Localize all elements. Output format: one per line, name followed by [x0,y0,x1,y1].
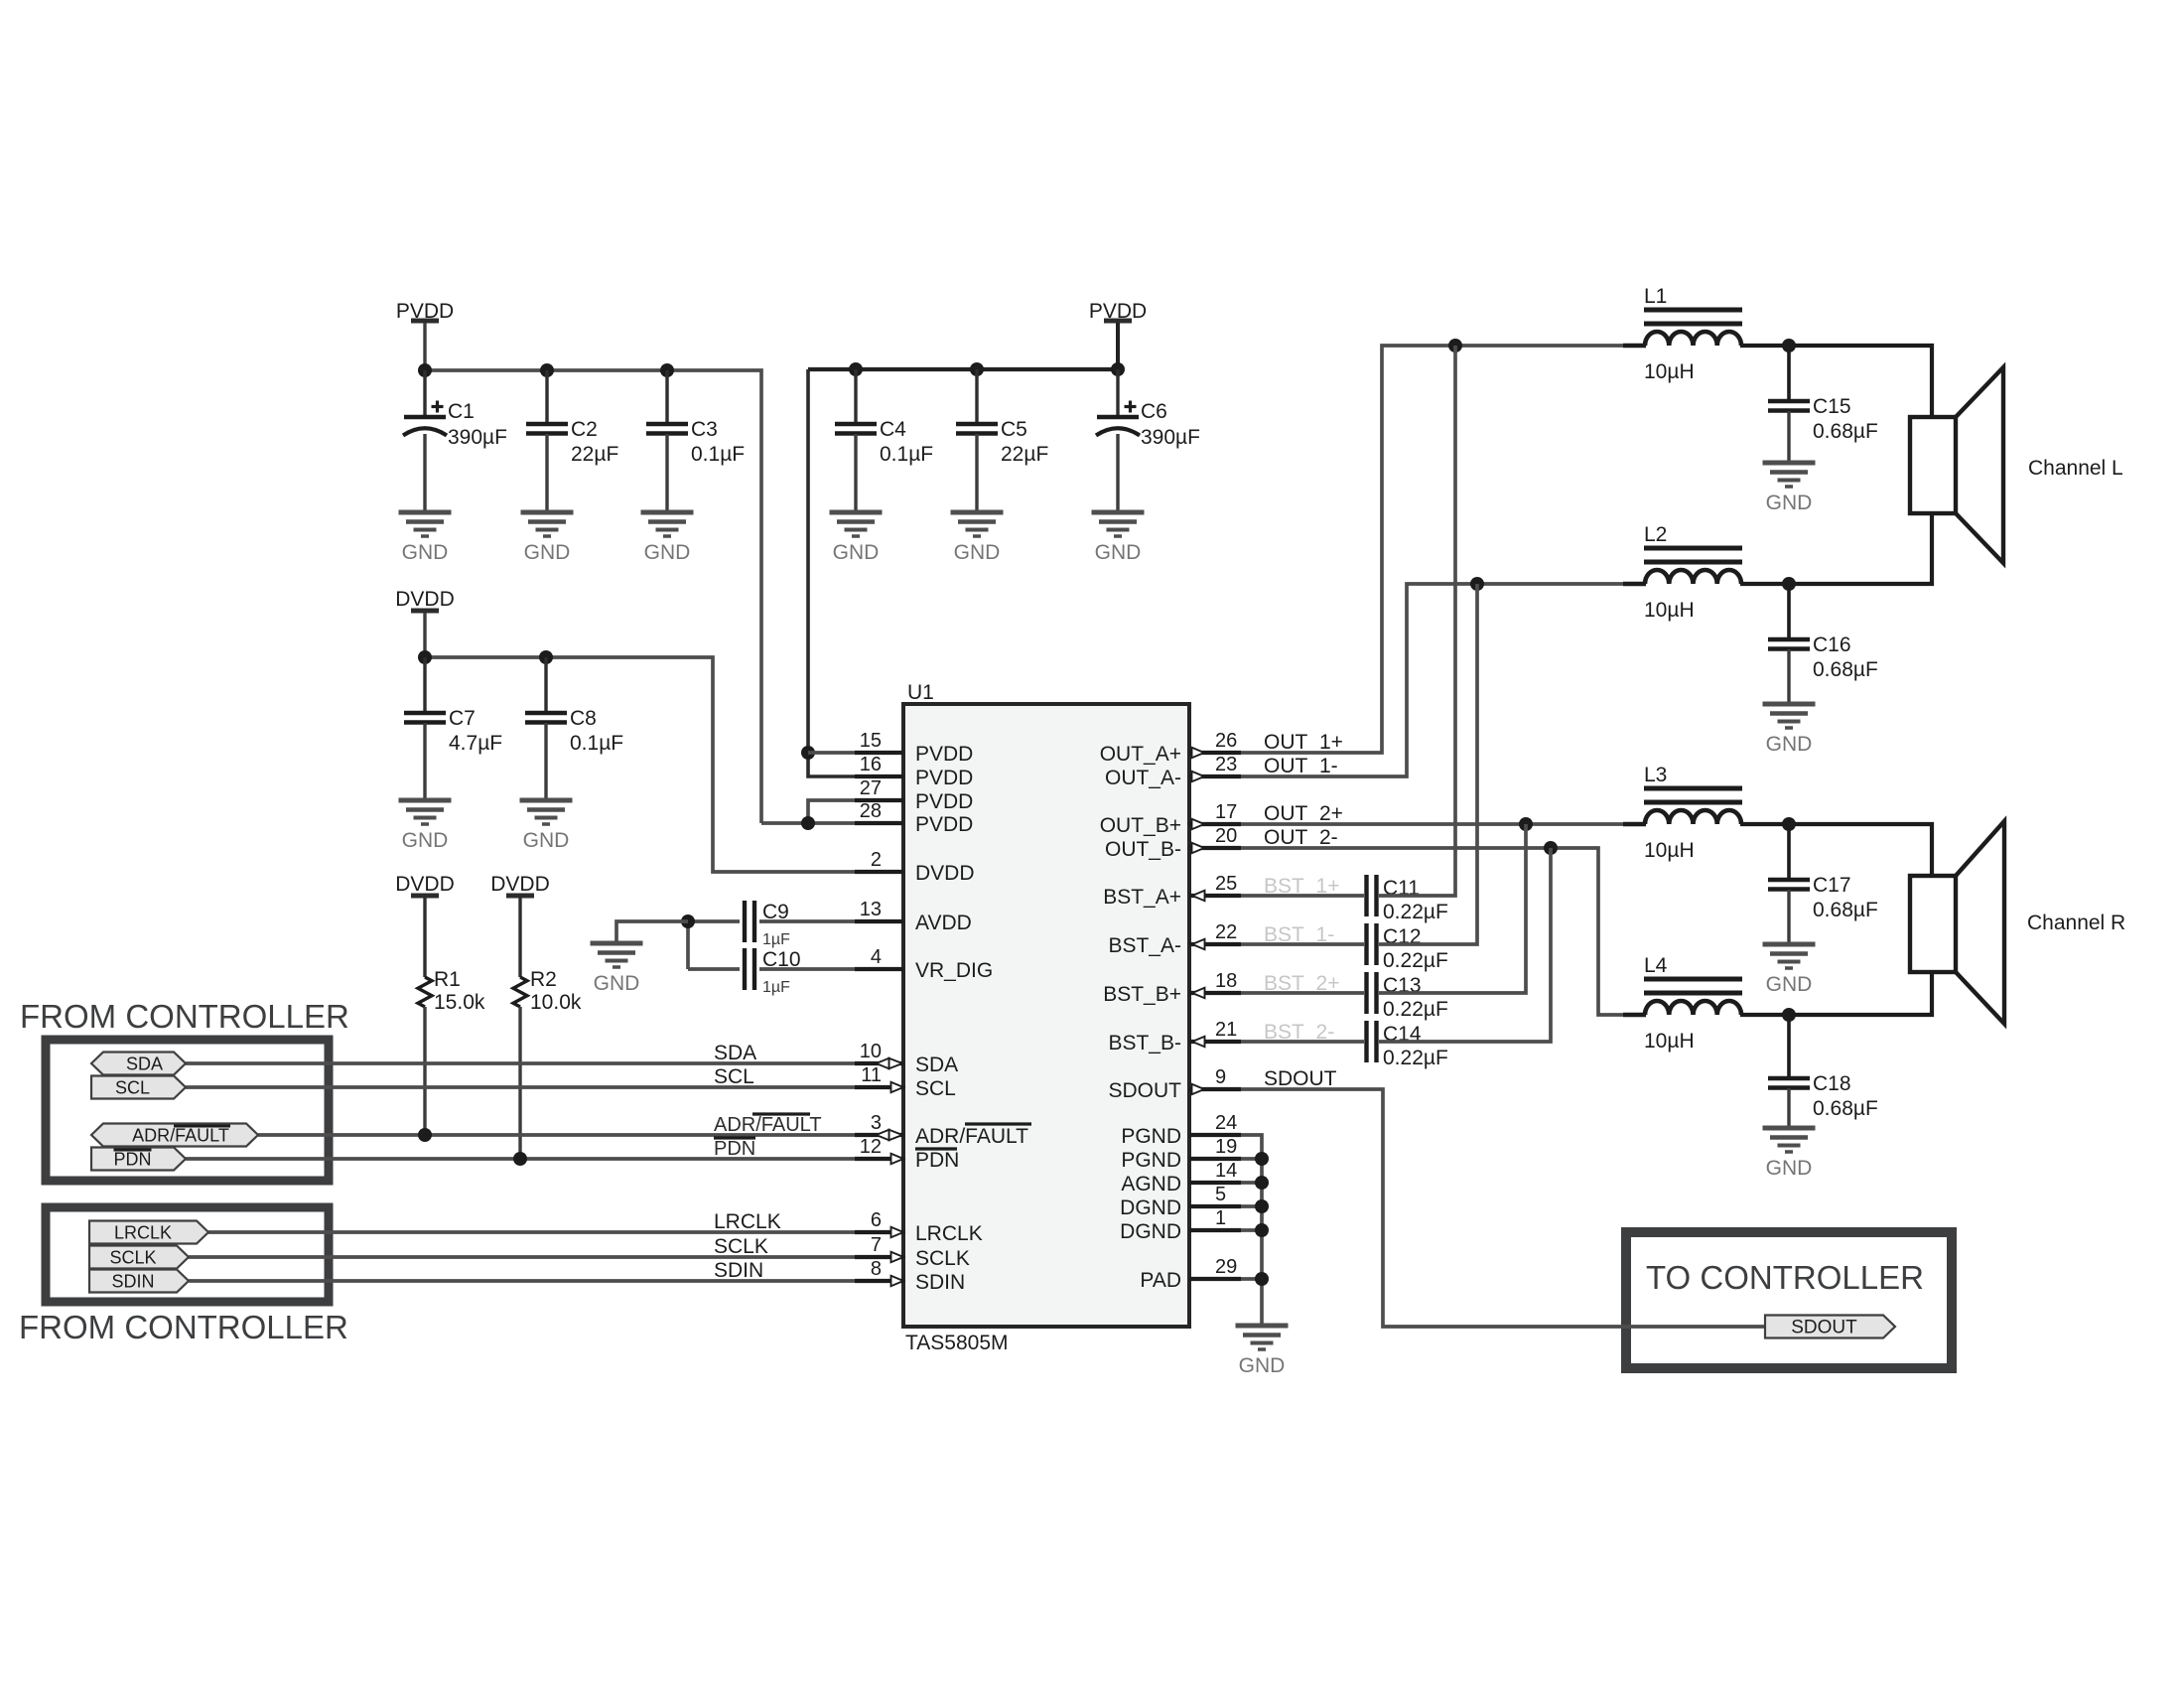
svg-text:2: 2 [871,849,882,871]
svg-text:SDIN: SDIN [915,1271,965,1294]
svg-text:C1: C1 [448,400,475,423]
power flag DVDD (C7/C8) [395,588,455,611]
pin 10 SDA (left) [855,1041,958,1076]
inductor L2 10uH [1644,523,1742,622]
svg-text:PDN: PDN [915,1149,959,1172]
wire C17 bottom [1787,890,1790,944]
wire C6 top [1116,369,1119,417]
svg-text:L2: L2 [1644,523,1667,546]
wire PVDD stem to rail [423,323,426,370]
wire C1 top [423,370,426,417]
ground below C1 [399,512,452,564]
svg-text:C8: C8 [570,707,597,730]
svg-text:AGND: AGND [1121,1173,1181,1196]
pin 29 PAD (right) [1140,1256,1241,1292]
wire C8 bottom [544,723,547,800]
pin 13 AVDD (left) [855,899,972,934]
svg-text:9: 9 [1215,1066,1226,1088]
wire C14 to OUT node [1379,848,1551,1042]
node rail1-C2 [540,363,554,377]
svg-text:FROM CONTROLLER: FROM CONTROLLER [20,998,349,1035]
svg-text:U1: U1 [907,681,934,704]
capacitor C2 22uF [526,418,618,466]
pin 14 AGND (right) [1121,1160,1241,1196]
wire C8 top [544,657,547,713]
svg-text:GND: GND [833,541,880,564]
capacitor C7 4.7uF [404,707,502,755]
svg-text:26: 26 [1215,730,1237,752]
node OUT_2+/C13 [1519,817,1533,831]
svg-text:LRCLK: LRCLK [915,1222,983,1245]
wire gnd pin branch [1241,1228,1262,1232]
node rail2-C6 [1111,362,1125,376]
capacitor C5 22uF [956,418,1048,466]
node rail1-C3 [660,363,674,377]
ground below C4 [830,512,883,564]
svg-text:1µF: 1µF [762,931,790,948]
svg-text:BST_A+: BST_A+ [1103,886,1181,909]
svg-text:C9: C9 [762,901,789,923]
svg-text:1: 1 [1215,1207,1226,1229]
wire R2 bottom [518,1007,521,1159]
node pin15 junction [801,746,815,760]
svg-text:GND: GND [523,829,570,852]
node C9/C10 common [681,914,695,928]
svg-text:SDIN: SDIN [111,1272,154,1292]
svg-text:SCLK: SCLK [109,1248,156,1268]
node rail2-C4 [849,362,863,376]
pin 20 OUT_B- (right) [1105,825,1241,861]
box TO CONTROLLER [1626,1232,1952,1368]
wire C13 to OUT node [1379,824,1526,993]
net label ADR/FAULT [714,1114,822,1136]
svg-text:SDIN: SDIN [714,1259,763,1282]
svg-text:SDOUT: SDOUT [1791,1318,1857,1338]
pin 23 OUT_A- (right) [1105,754,1241,789]
ground below C2 [521,512,574,564]
svg-text:SDA: SDA [915,1054,958,1076]
svg-text:SCL: SCL [714,1065,754,1088]
svg-text:GND: GND [1766,1157,1813,1180]
wire LRCLK net [208,1230,855,1234]
svg-text:L1: L1 [1644,285,1667,308]
port flag SDA [91,1053,186,1075]
wire C15 bottom [1787,411,1790,463]
pin 1 DGND (right) [1120,1207,1241,1243]
svg-text:PVDD: PVDD [915,790,973,813]
svg-text:10µH: 10µH [1644,839,1695,862]
svg-text:0.68µF: 0.68µF [1813,658,1878,681]
wire PVDD rail 2 [808,367,1118,371]
svg-text:0.1µF: 0.1µF [570,732,623,755]
capacitor C8 0.1uF [525,707,623,755]
svg-text:390µF: 390µF [1141,426,1200,449]
svg-text:AVDD: AVDD [915,912,972,934]
svg-text:0.22µF: 0.22µF [1383,901,1448,923]
svg-text:GND: GND [594,972,640,995]
pin 11 SCL (left) [855,1064,956,1100]
capacitor C9 1uF [745,901,754,942]
wire C1 bottom [423,434,426,512]
svg-text:GND: GND [1095,541,1142,564]
svg-text:27: 27 [860,777,882,799]
node L2-C16 [1782,577,1796,591]
wire PDN net [186,1157,855,1161]
capacitor C11 0.22uF [1367,875,1448,923]
port flag LRCLK [89,1221,208,1244]
svg-text:BST_A-: BST_A- [1108,934,1181,957]
svg-text:0.22µF: 0.22µF [1383,1047,1448,1069]
svg-text:GND: GND [954,541,1001,564]
svg-text:18: 18 [1215,970,1237,992]
svg-text:10µH: 10µH [1644,599,1695,622]
svg-text:PGND: PGND [1121,1125,1181,1148]
svg-text:C17: C17 [1813,874,1851,897]
wire SDIN net [189,1279,855,1283]
svg-text:GND: GND [1766,733,1813,756]
node DVDD-C8 [539,650,553,664]
wire C12 to OUT node [1379,584,1477,944]
svg-text:GND: GND [524,541,571,564]
svg-text:BST_B-: BST_B- [1108,1032,1181,1055]
svg-text:LRCLK: LRCLK [714,1210,781,1233]
wire L2 to speaker [1740,513,1932,584]
wire SDA net [186,1061,855,1065]
svg-text:TAS5805M: TAS5805M [905,1332,1009,1354]
svg-text:OUT_1+: OUT_1+ [1264,731,1343,754]
pin 6 LRCLK (left) [855,1209,983,1245]
svg-text:R2: R2 [530,968,557,991]
svg-text:24: 24 [1215,1112,1237,1134]
svg-text:0.1µF: 0.1µF [880,443,933,466]
ground below C8 [520,800,573,852]
svg-text:12: 12 [860,1136,882,1158]
wire C5 bottom [975,434,978,512]
svg-text:PDN: PDN [714,1138,755,1160]
wire C13 left [1241,991,1364,995]
svg-text:PDN: PDN [113,1150,151,1170]
svg-text:ADR/FAULT: ADR/FAULT [714,1114,822,1136]
svg-text:FROM CONTROLLER: FROM CONTROLLER [19,1309,348,1345]
svg-text:C16: C16 [1813,633,1851,656]
wire DVDD rail to pin 2 [425,657,855,872]
capacitor C15 0.68uF [1768,395,1878,443]
wire OUT_1+ [1241,346,1623,753]
svg-text:GND: GND [1239,1354,1286,1377]
node R2-PDN [513,1152,527,1166]
wire L1 to speaker [1740,346,1932,417]
svg-text:22: 22 [1215,921,1237,943]
pin 3 ADR/FAULT (left) [855,1112,1031,1148]
ground below C7 [399,800,452,852]
svg-text:1µF: 1µF [762,979,790,996]
pin 17 OUT_B+ (right) [1100,801,1241,837]
wire L3 to speaker [1740,824,1932,876]
svg-text:8: 8 [871,1258,882,1280]
svg-text:390µF: 390µF [448,426,507,449]
svg-text:17: 17 [1215,801,1237,823]
pin 9 SDOUT (right) [1109,1066,1242,1102]
wire C18 bottom [1787,1088,1790,1128]
svg-text:28: 28 [860,800,882,822]
svg-text:OUT_2-: OUT_2- [1264,826,1338,849]
svg-text:R1: R1 [434,968,461,991]
node OUT_1-/C12 [1470,577,1484,591]
wire AVDD node drop [686,921,690,969]
svg-text:PVDD: PVDD [915,767,973,789]
op-amp U1 TAS5805M body [903,681,1189,1354]
svg-text:TO CONTROLLER: TO CONTROLLER [1646,1259,1924,1296]
node L3-C17 [1782,817,1796,831]
svg-text:10µH: 10µH [1644,360,1695,383]
resistor R2 10.0k [513,968,582,1014]
node L1-C15 [1782,339,1796,352]
svg-text:C5: C5 [1001,418,1027,441]
ground below C3 [641,512,694,564]
box FROM CONTROLLER 1 [46,1040,329,1181]
svg-text:Channel L: Channel L [2028,457,2123,480]
svg-text:GND: GND [402,541,449,564]
node L4-C18 [1782,1008,1796,1022]
svg-text:14: 14 [1215,1160,1237,1182]
capacitor C16 0.68uF [1768,633,1878,681]
svg-text:SCL: SCL [115,1078,150,1098]
wire C17 top [1787,824,1791,878]
wire C15 top [1787,346,1791,399]
node DVDD-C7 [418,650,432,664]
capacitor C4 0.1uF [835,418,933,466]
node gnd bus [1255,1223,1269,1237]
wire PVDD stem C6 [1116,323,1120,369]
node R1-ADR/FAULT [418,1128,432,1142]
pin 7 SCLK (left) [855,1234,970,1270]
ground below C5 [951,512,1004,564]
capacitor C10 1uF [745,948,754,990]
inductor L3 10uH [1644,764,1742,862]
box FROM CONTROLLER 2 [46,1207,329,1302]
svg-text:10: 10 [860,1041,882,1062]
ground C9/C10 [591,943,643,995]
svg-text:DVDD: DVDD [395,588,455,611]
speaker Channel L [1910,367,2123,563]
port flag SDOUT [1765,1316,1895,1338]
svg-text:C6: C6 [1141,400,1167,423]
svg-text:DVDD: DVDD [395,873,455,896]
wire gnd pin branch [1241,1277,1262,1281]
svg-text:6: 6 [871,1209,882,1231]
svg-text:DVDD: DVDD [915,862,975,885]
wire C11 left [1241,894,1364,898]
svg-text:C7: C7 [449,707,476,730]
svg-text:25: 25 [1215,873,1237,895]
svg-text:C18: C18 [1813,1072,1851,1095]
svg-text:PVDD: PVDD [915,743,973,766]
svg-text:OUT_B+: OUT_B+ [1100,814,1181,837]
wire OUT_2+ [1241,822,1623,826]
pin 12 PDN (left) [855,1136,959,1172]
svg-text:0.22µF: 0.22µF [1383,998,1448,1021]
svg-text:DGND: DGND [1120,1220,1181,1243]
pin 19 PGND (right) [1121,1136,1241,1172]
resistor R1 15.0k [418,968,485,1014]
inductor L1 10uH [1644,285,1742,383]
wire C10 left [688,967,740,971]
inductor L4 10uH [1644,954,1742,1053]
wire SDOUT [1241,1089,1765,1327]
wire C14 left [1241,1040,1364,1044]
svg-text:SDOUT: SDOUT [1109,1079,1182,1102]
wire OUT_1- [1241,584,1623,776]
node gnd bus [1255,1272,1269,1286]
pin 2 DVDD (left) [855,849,975,885]
svg-text:BST_B+: BST_B+ [1103,983,1181,1006]
pin 27 PVDD (left) [855,777,973,813]
port flag SCLK [89,1246,189,1269]
port flag ADR/FAULT [91,1124,258,1147]
wire pin 27 branch [808,800,855,823]
ground below C18 [1763,1128,1816,1180]
svg-text:C10: C10 [762,948,801,971]
svg-text:SDOUT: SDOUT [1264,1067,1337,1090]
pin 5 DGND (right) [1120,1184,1241,1219]
svg-text:23: 23 [1215,754,1237,775]
svg-text:OUT_2+: OUT_2+ [1264,802,1343,825]
wire C2 top [545,370,548,424]
node gnd bus [1255,1199,1269,1213]
wire R1 top [423,898,426,977]
svg-text:29: 29 [1215,1256,1237,1278]
svg-text:Channel R: Channel R [2027,912,2125,934]
svg-text:11: 11 [861,1064,882,1086]
ground below C6 [1092,512,1145,564]
wire gnd pin branch [1241,1157,1262,1161]
svg-text:L3: L3 [1644,764,1667,786]
svg-text:PVDD: PVDD [915,813,973,836]
ground below C17 [1763,944,1816,996]
node gnd bus [1255,1152,1269,1166]
svg-text:0.68µF: 0.68µF [1813,899,1878,921]
svg-text:LRCLK: LRCLK [114,1223,172,1243]
svg-text:ADR/FAULT: ADR/FAULT [915,1125,1028,1148]
svg-text:15: 15 [860,730,882,752]
svg-text:DGND: DGND [1120,1196,1181,1219]
node pin28 junction [801,816,815,830]
wire C12 left [1241,942,1364,946]
svg-text:SCLK: SCLK [915,1247,970,1270]
wire C11 to OUT node [1379,346,1455,896]
pin 8 SDIN (left) [855,1258,965,1294]
svg-text:VR_DIG: VR_DIG [915,959,993,982]
node rail2-C5 [970,362,984,376]
capacitor C6 390uF [1096,400,1200,449]
wire rail2 drop to pins 15/16 [808,369,855,776]
svg-text:OUT_1-: OUT_1- [1264,755,1338,777]
svg-text:7: 7 [871,1234,882,1256]
pin 4 VR_DIG (left) [855,946,993,982]
svg-text:4: 4 [871,946,882,968]
svg-text:DVDD: DVDD [490,873,550,896]
capacitor C1 390uF [403,400,507,449]
pin 24 PGND (right) [1121,1112,1241,1148]
capacitor C3 0.1uF [646,418,745,466]
capacitor C14 0.22uF [1367,1021,1448,1069]
wire ADR/FAULT net [258,1133,855,1137]
svg-text:PGND: PGND [1121,1149,1181,1172]
wire C7 bottom [423,723,426,800]
wire OUT_2- [1241,848,1623,1015]
svg-text:OUT_A+: OUT_A+ [1100,743,1181,766]
svg-text:PAD: PAD [1140,1269,1181,1292]
port flag PDN [91,1148,186,1171]
wire C16 bottom [1787,649,1790,704]
svg-text:SDA: SDA [714,1042,756,1064]
svg-text:0.22µF: 0.22µF [1383,949,1448,972]
svg-text:GND: GND [644,541,691,564]
wire C4 top [854,369,857,424]
pin 16 PVDD (left) [855,754,973,789]
node OUT_2-/C14 [1544,841,1558,855]
svg-text:0.68µF: 0.68µF [1813,420,1878,443]
ground below C15 [1763,463,1816,514]
svg-text:22µF: 22µF [1001,443,1048,466]
power flag PVDD (right bank) [1089,300,1147,323]
svg-text:C3: C3 [691,418,718,441]
svg-text:SCLK: SCLK [714,1235,768,1258]
wire C10 right [759,967,855,971]
wire gnd pin branch [1241,1181,1262,1185]
svg-text:C2: C2 [571,418,598,441]
svg-text:22µF: 22µF [571,443,618,466]
svg-text:10.0k: 10.0k [530,991,582,1014]
power flag DVDD (R2) [490,873,550,896]
node rail1-C1 [418,363,432,377]
pin 26 OUT_A+ (right) [1100,730,1241,766]
node OUT_1+/C11 [1448,339,1462,352]
wire C18 top [1787,1015,1791,1076]
wire R2 top [518,898,521,977]
wire gnd pin branch [1241,1204,1262,1208]
ground below C16 [1763,704,1816,756]
svg-text:15.0k: 15.0k [434,991,485,1014]
capacitor C17 0.68uF [1768,874,1878,921]
wire R1 bottom [423,1007,426,1135]
svg-text:5: 5 [1215,1184,1226,1205]
pin 22 BST_A- (right) [1108,921,1241,957]
svg-text:GND: GND [402,829,449,852]
ground below PAD bus [1236,1326,1289,1377]
svg-text:13: 13 [860,899,882,920]
svg-text:0.68µF: 0.68µF [1813,1097,1878,1120]
svg-text:4.7µF: 4.7µF [449,732,502,755]
svg-text:21: 21 [1215,1019,1237,1041]
svg-text:C4: C4 [880,418,906,441]
wire SCL net [186,1085,855,1089]
pin 21 BST_B- (right) [1108,1019,1241,1055]
svg-text:SDA: SDA [126,1055,163,1074]
svg-text:OUT_A-: OUT_A- [1105,767,1181,789]
svg-text:16: 16 [860,754,882,775]
svg-text:ADR/FAULT: ADR/FAULT [132,1126,229,1146]
svg-text:GND: GND [1766,973,1813,996]
speaker Channel R [1910,821,2125,1024]
power flag DVDD (R1) [395,873,455,896]
pin 25 BST_A+ (right) [1103,873,1241,909]
capacitor C12 0.22uF [1367,923,1448,972]
port flag SCL [91,1076,186,1099]
wire C3 top [665,370,668,424]
wire PGND/AGND/DGND bus [1241,1135,1262,1326]
wire to ground (C9/C10) [616,921,688,943]
